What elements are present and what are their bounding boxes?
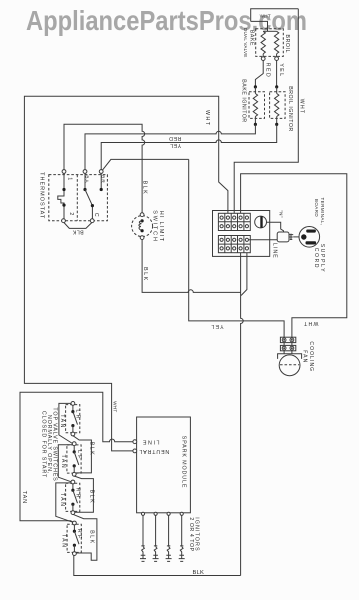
svg-text:FAN: FAN	[302, 350, 308, 363]
cooling fan connector 1	[280, 337, 295, 342]
supply cord plug	[299, 227, 320, 248]
resistor bake ignitor	[254, 87, 256, 94]
thermostat oven switch 1-2 with thermal element	[58, 173, 64, 218]
svg-text:2: 2	[68, 212, 74, 215]
wire BLK bracket LR to LF	[73, 436, 92, 473]
svg-text:TAN: TAN	[59, 414, 65, 429]
wire BLK thermostat BR to hi-limit tee	[103, 159, 189, 170]
svg-text:LR: LR	[75, 409, 81, 420]
spark module box	[137, 417, 191, 513]
svg-text:WHT: WHT	[204, 110, 210, 127]
hi limit contacts and element	[141, 219, 144, 222]
ignitor electrode 4	[180, 515, 183, 546]
svg-text:BLK: BLK	[193, 570, 205, 576]
svg-text:WHT: WHT	[260, 13, 271, 18]
switch RR terminals and contacts	[71, 480, 75, 484]
wire fuse to supply cord	[267, 222, 284, 232]
spark module LINE terminal	[133, 440, 137, 444]
svg-text:RED: RED	[169, 135, 182, 141]
svg-text:"N": "N"	[278, 210, 283, 218]
svg-text:1: 1	[67, 177, 73, 180]
svg-text:TAN: TAN	[60, 534, 66, 549]
node junction broil ignitor top	[275, 85, 278, 88]
coil BAKE valve	[261, 31, 265, 53]
wire YEL fan riser	[189, 159, 284, 337]
wire TAN chain LF	[58, 445, 72, 482]
terminal BR thermostat	[99, 170, 103, 174]
thermostat dashed box	[49, 175, 108, 221]
svg-text:COOLING: COOLING	[308, 341, 314, 372]
coil BROIL valve	[274, 31, 278, 53]
wire YEL broil ignitor to thermostat BR	[101, 124, 277, 169]
wire BLK jumper terminals 2-C	[64, 223, 92, 229]
svg-text:LINE: LINE	[272, 243, 278, 259]
terminal C thermostat	[90, 219, 94, 223]
wire LINE from terminal board to supply cord	[249, 239, 278, 241]
svg-text:TERMINAL,: TERMINAL,	[320, 197, 325, 225]
bake ignitor dashed box	[249, 92, 265, 119]
svg-text:YEL: YEL	[210, 323, 223, 329]
svg-text:SPARK MODULE: SPARK MODULE	[180, 436, 186, 489]
wire BLK terminal board col4 to bottom rail	[241, 253, 244, 576]
wire thermostat terminal 1 bridge	[64, 124, 145, 169]
wire terminal board col5 drop	[241, 253, 247, 296]
svg-text:DUAL VALVE: DUAL VALVE	[243, 28, 248, 58]
svg-text:TAN: TAN	[21, 491, 27, 504]
wire BLK hi-limit to main BLK node	[142, 240, 241, 293]
thermostat bake contact BA-C	[84, 173, 86, 189]
thermostat broil contact BR	[100, 173, 102, 189]
svg-text:LINE: LINE	[141, 438, 159, 444]
svg-text:RR: RR	[75, 488, 81, 500]
ignitor electrode 3	[167, 515, 170, 546]
svg-text:CLOSED FOR START: CLOSED FOR START	[40, 411, 46, 478]
supply cord terminal block	[277, 232, 289, 242]
wire WHT neutral: left riser, top run, drop to terminal board	[24, 96, 228, 451]
svg-text:BLK: BLK	[88, 530, 94, 545]
svg-text:YEL: YEL	[169, 142, 181, 148]
svg-text:BAKE IGNITOR: BAKE IGNITOR	[241, 79, 247, 122]
svg-text:TAN: TAN	[60, 455, 66, 470]
svg-text:2 OR 4 TOP: 2 OR 4 TOP	[188, 517, 194, 551]
svg-text:BROIL: BROIL	[284, 35, 290, 54]
top valve switch LF dashed box	[67, 445, 81, 473]
svg-text:BROIL IGNITOR: BROIL IGNITOR	[287, 86, 293, 132]
switch LF terminals and contacts	[72, 442, 76, 446]
resistor broil ignitor	[276, 87, 278, 94]
terminal 2 thermostat	[62, 219, 66, 223]
wire TAN rail (line) around top valve switches	[20, 392, 135, 522]
terminal 1 thermostat	[62, 170, 66, 174]
terminal strip 2	[218, 236, 250, 253]
svg-text:SWITCH: SWITCH	[152, 210, 158, 243]
svg-text:LF: LF	[76, 450, 82, 461]
spark module NEUTRAL terminal	[133, 449, 137, 453]
wire TAN chain RR	[56, 483, 73, 522]
wire valve coil tee	[263, 30, 276, 32]
ground symbol supply cord	[289, 234, 293, 240]
terminal board outer box	[213, 211, 270, 257]
terminal strip 1	[218, 213, 250, 230]
switch LR terminals and contacts	[71, 402, 75, 406]
node junction broil ignitor bottom	[275, 123, 278, 126]
svg-text:THERMOSTAT: THERMOSTAT	[38, 172, 44, 219]
top valve switch RF dashed box	[67, 524, 81, 552]
switch RF terminals and contacts	[73, 521, 77, 525]
ignitor electrode 2	[154, 515, 157, 546]
svg-text:BLK: BLK	[89, 442, 95, 457]
svg-text:TAN: TAN	[59, 493, 65, 508]
hi limit top terminal	[140, 213, 144, 217]
svg-text:YEL: YEL	[278, 63, 284, 77]
svg-text:WHT: WHT	[298, 99, 304, 114]
cooling fan motor	[278, 354, 302, 359]
wire WHT right riser to terminal board	[234, 9, 298, 214]
terminal BA thermostat	[83, 170, 87, 174]
svg-text:BOARD: BOARD	[314, 199, 319, 218]
wire RED valve to bake ignitor	[255, 61, 263, 87]
svg-text:RED: RED	[264, 63, 270, 78]
svg-text:CORD: CORD	[313, 248, 319, 270]
svg-text:HI LIMIT: HI LIMIT	[158, 211, 164, 242]
wire BLK bracket LF to RR	[74, 476, 93, 512]
fuse holder on terminal board	[255, 216, 267, 228]
hi limit switch dashed circle	[132, 216, 153, 237]
svg-text:WHT: WHT	[113, 401, 118, 412]
wire BLK RF to bottom rail	[74, 556, 241, 576]
spark module ignitor terminals	[141, 512, 144, 515]
broil ignitor dashed box	[270, 92, 286, 119]
svg-text:BLK: BLK	[88, 490, 94, 505]
svg-text:BAKE: BAKE	[249, 30, 255, 46]
hi limit bottom terminal	[140, 236, 144, 240]
wire RED bake ignitor to thermostat BA	[85, 124, 255, 169]
node junction bake ignitor bottom	[254, 123, 257, 126]
wire TAN chain LR	[59, 403, 73, 443]
wire BLK to hi-limit switch	[141, 159, 143, 212]
wire fan connector links	[284, 343, 292, 354]
top valve switch LR dashed box	[66, 405, 80, 433]
svg-text:WHT: WHT	[303, 320, 318, 326]
wire WHT valve supply top	[251, 9, 299, 22]
svg-text:NEUTRAL: NEUTRAL	[139, 448, 170, 454]
wire YEL valve to broil ignitor	[276, 61, 278, 87]
svg-text:BLK: BLK	[142, 267, 148, 282]
top valve switch RR dashed box	[66, 483, 80, 511]
svg-text:RF: RF	[76, 529, 82, 541]
cooling fan connector 2	[280, 345, 295, 350]
svg-text:BLK: BLK	[142, 181, 148, 196]
svg-text:C: C	[93, 213, 99, 217]
svg-text:BLK: BLK	[72, 229, 83, 235]
wire fan feed from terminal board col4	[241, 174, 347, 338]
wire BLK bracket RR to RF	[73, 514, 97, 560]
node junction bake ignitor top	[254, 85, 257, 88]
ignitor electrode 1	[141, 515, 144, 546]
dual valve dashed box	[256, 29, 284, 57]
